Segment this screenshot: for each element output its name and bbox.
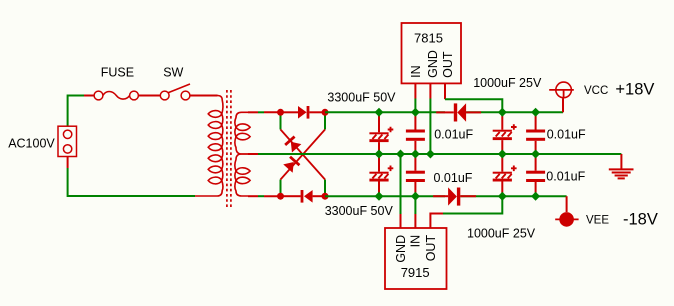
junction bridge bottom-right <box>322 193 329 200</box>
transformer T1 secondary upper winding <box>235 112 250 154</box>
junction dot mid 0.01uF right <box>531 150 540 159</box>
svg-text:7815: 7815 <box>414 30 443 45</box>
ground symbol <box>609 154 634 178</box>
wire positive rail from protection diode to VCC corner <box>466 111 563 113</box>
svg-text:VEE: VEE <box>586 215 609 227</box>
junction bridge bottom-left <box>277 193 284 200</box>
pin OUT 7815 <box>445 83 502 112</box>
capacitor C6 1000uF 25V bottom <box>493 154 517 196</box>
diode D1 bridge top <box>281 106 326 119</box>
svg-text:IN: IN <box>409 235 423 248</box>
capacitor C5 1000uF 25V top <box>493 112 517 154</box>
junction bridge top-left <box>277 109 284 116</box>
svg-text:0.01uF: 0.01uF <box>434 128 473 142</box>
junction dot rail top 0.01uF right <box>531 108 540 117</box>
wire secondary center tap to ground rail <box>248 153 621 155</box>
svg-text:+18V: +18V <box>615 81 654 99</box>
wire negative rail from protection diode to VEE corner <box>460 195 566 197</box>
capacitor C7 0.01uF top-right <box>526 112 545 154</box>
pin IN 7815 <box>414 83 416 112</box>
svg-text:3300uF 50V: 3300uF 50V <box>327 91 396 105</box>
junction dot mid 0.01uF <box>411 150 420 159</box>
regulator U2 7915 box <box>385 228 447 289</box>
junction dot mid 3300uF <box>375 150 384 159</box>
junction dot rail bottom 0.01uF/IN <box>411 192 420 201</box>
pin GND 7815 <box>429 83 431 154</box>
junction dot rail bottom 0.01uF right <box>531 192 540 201</box>
capacitor C4 0.01uF bottom-left <box>406 154 425 196</box>
svg-text:0.01uF: 0.01uF <box>434 171 473 185</box>
svg-text:IN: IN <box>409 65 423 78</box>
wire AC source top to fuse <box>68 96 84 127</box>
wire secondary bottom tap to bridge <box>248 195 281 197</box>
pin GND 7915 <box>400 154 402 228</box>
wire center tap rail over crossing <box>290 153 316 155</box>
svg-text:FUSE: FUSE <box>101 66 134 80</box>
wire bridge vertical top-left <box>280 112 282 129</box>
svg-text:7915: 7915 <box>401 265 430 280</box>
svg-text:OUT: OUT <box>424 235 438 262</box>
wire positive rail from bridge to regulator input <box>325 111 445 113</box>
junction dot rail bottom 1000uF/OUT <box>498 192 507 201</box>
svg-text:VCC: VCC <box>584 85 608 97</box>
svg-text:1000uF 25V: 1000uF 25V <box>473 76 542 90</box>
pin OUT 7915 <box>430 196 502 228</box>
junction dot mid 7815 GND <box>426 150 435 159</box>
wire bridge vertical bottom-right <box>324 180 326 197</box>
svg-text:3300uF 50V: 3300uF 50V <box>325 204 394 218</box>
svg-text:SW: SW <box>163 66 183 80</box>
terminal VEE <box>555 196 578 227</box>
wire secondary top tap to bridge <box>248 111 281 113</box>
capacitor C3 0.01uF top-left <box>406 112 425 154</box>
AC source AC100V <box>58 126 77 168</box>
junction dot rail top 1000uF/OUT <box>498 108 507 117</box>
svg-text:GND: GND <box>394 235 408 263</box>
junction bridge top-right <box>322 109 329 116</box>
junction dot mid 7915 GND <box>396 150 405 159</box>
diode D3 bridge upper diagonal <box>284 136 301 153</box>
transformer T1 primary winding <box>195 96 223 197</box>
wire bridge diagonal backslash <box>281 130 326 180</box>
diode D6 protection bottom <box>433 187 476 205</box>
svg-text:OUT: OUT <box>441 51 455 78</box>
terminal VCC <box>549 82 574 112</box>
junction dot mid 1000uF <box>498 150 507 159</box>
wire negative rail from bridge to regulator input <box>325 195 445 197</box>
svg-text:GND: GND <box>426 50 440 78</box>
wire bridge diagonal slash <box>281 130 326 180</box>
svg-text:1000uF 25V: 1000uF 25V <box>467 227 536 241</box>
switch SW <box>160 84 217 100</box>
wire AC source bottom down and right <box>68 168 195 196</box>
capacitor C2 3300uF 50V bottom <box>369 154 393 196</box>
fuse F1 <box>84 91 160 100</box>
pin IN 7915 <box>414 196 416 228</box>
svg-text:0.01uF: 0.01uF <box>547 128 586 142</box>
diode D5 protection top <box>436 103 481 122</box>
diode D4 bridge lower diagonal <box>283 156 300 173</box>
svg-text:0.01uF: 0.01uF <box>546 169 585 183</box>
capacitor C8 0.01uF bottom-right <box>526 154 545 196</box>
svg-text:-18V: -18V <box>623 211 658 229</box>
junction dot rail top 3300uF <box>375 108 384 117</box>
diode D2 bridge bottom <box>281 190 326 203</box>
regulator U1 7815 box <box>402 23 462 83</box>
wire bridge vertical bottom-left <box>280 180 282 197</box>
svg-text:AC100V: AC100V <box>8 137 55 151</box>
transformer T1 core <box>227 90 231 210</box>
junction dot rail bottom 3300uF <box>375 192 384 201</box>
junction dot rail top 0.01uF/IN <box>411 108 420 117</box>
wire bridge vertical top-right <box>324 112 326 129</box>
capacitor C1 3300uF 50V top <box>369 112 393 154</box>
transformer T1 secondary lower winding <box>235 154 250 196</box>
